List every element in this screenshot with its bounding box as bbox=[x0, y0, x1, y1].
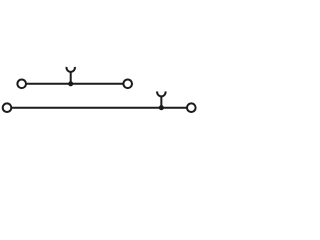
wire lower level bbox=[11, 107, 187, 109]
wire upper level bbox=[26, 83, 124, 85]
wire tap stem lower bbox=[160, 96, 162, 108]
socket cup upper bbox=[67, 67, 75, 72]
terminal circle upper-right bbox=[123, 80, 132, 89]
junction dot upper bbox=[69, 82, 72, 85]
terminal circle lower-left bbox=[3, 103, 12, 112]
terminal circle upper-left bbox=[17, 80, 26, 89]
junction dot lower bbox=[160, 106, 163, 109]
terminal circle lower-right bbox=[187, 103, 196, 112]
socket cup lower bbox=[157, 91, 165, 96]
wire tap stem upper bbox=[70, 72, 72, 84]
